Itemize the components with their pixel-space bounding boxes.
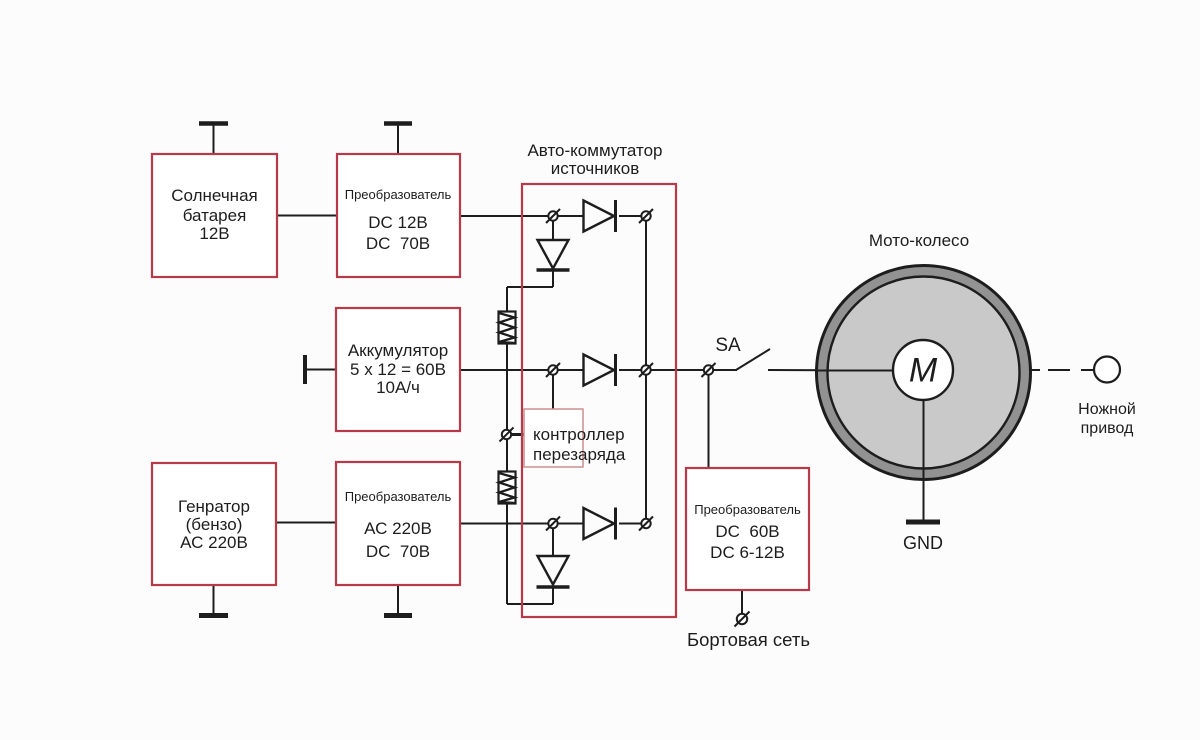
svg-text:Аккумулятор: Аккумулятор bbox=[348, 341, 448, 360]
svg-text:GND: GND bbox=[903, 533, 943, 553]
svg-text:DC 12В: DC 12В bbox=[368, 213, 428, 232]
svg-text:DC 70В: DC 70В bbox=[366, 542, 430, 561]
svg-text:Ножной: Ножной bbox=[1078, 401, 1136, 418]
svg-text:DC 70В: DC 70В bbox=[366, 234, 430, 253]
svg-text:12В: 12В bbox=[199, 224, 229, 243]
svg-text:АС 220В: АС 220В bbox=[364, 519, 432, 538]
svg-text:DC 6-12В: DC 6-12В bbox=[710, 543, 785, 562]
svg-text:М: М bbox=[909, 352, 938, 390]
svg-text:Бортовая сеть: Бортовая сеть bbox=[687, 629, 810, 650]
svg-text:источников: источников bbox=[551, 159, 640, 178]
svg-text:Преобразователь: Преобразователь bbox=[345, 489, 452, 504]
svg-text:Преобразователь: Преобразователь bbox=[345, 187, 452, 202]
svg-text:АС 220В: АС 220В bbox=[180, 533, 248, 552]
svg-text:Мото-колесо: Мото-колесо bbox=[869, 231, 969, 250]
svg-text:10А/ч: 10А/ч bbox=[376, 378, 420, 397]
svg-text:Преобразователь: Преобразователь bbox=[694, 502, 801, 517]
svg-text:Солнечная: Солнечная bbox=[171, 186, 257, 205]
svg-text:5 х 12 = 60В: 5 х 12 = 60В bbox=[350, 360, 446, 379]
svg-text:батарея: батарея bbox=[183, 206, 247, 225]
svg-text:DC 60В: DC 60В bbox=[715, 522, 779, 541]
svg-text:контроллер: контроллер bbox=[533, 425, 625, 444]
svg-text:привод: привод bbox=[1081, 420, 1134, 437]
svg-text:Авто-коммутатор: Авто-коммутатор bbox=[527, 141, 662, 160]
svg-text:(бензо): (бензо) bbox=[186, 515, 243, 534]
svg-text:Генратор: Генратор bbox=[178, 497, 250, 516]
svg-text:SA: SA bbox=[715, 335, 741, 356]
svg-text:перезаряда: перезаряда bbox=[533, 445, 626, 464]
